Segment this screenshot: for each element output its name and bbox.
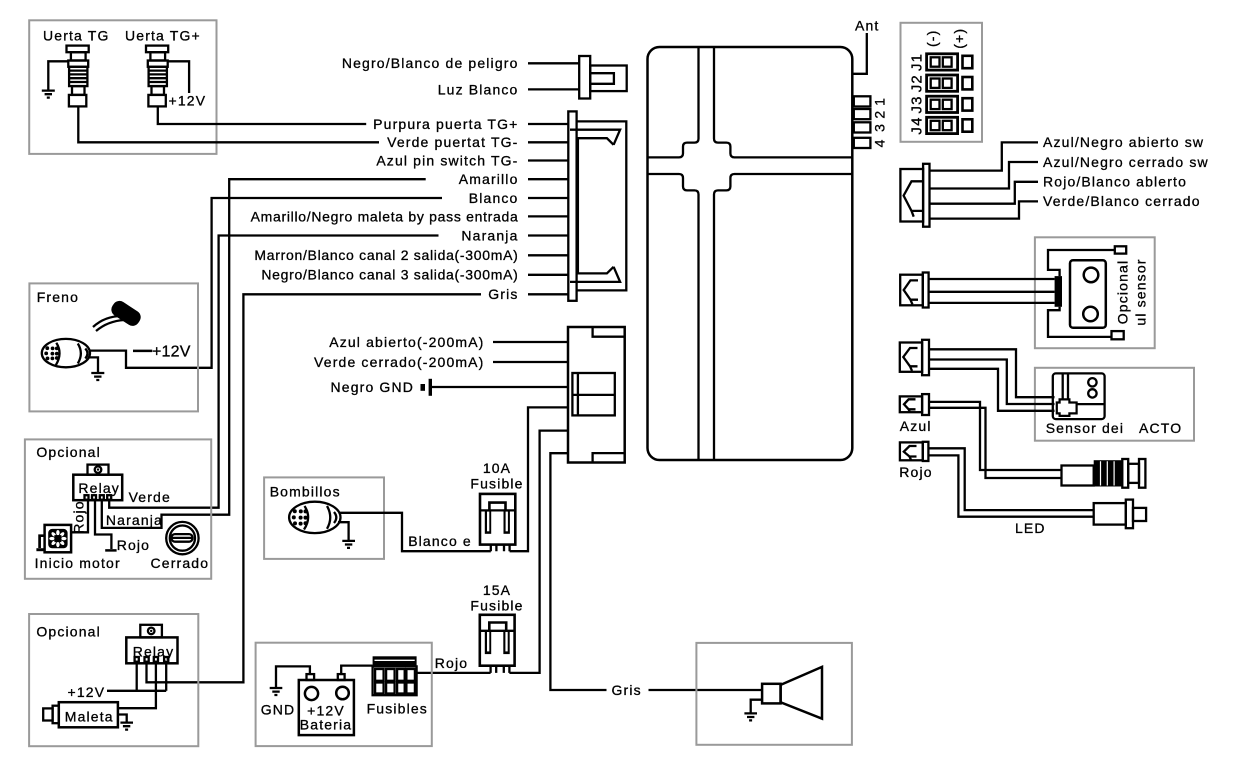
pedal cables	[93, 316, 124, 331]
box Uerta TG switches	[29, 20, 216, 154]
wire Azul pair b	[929, 408, 1062, 478]
ground	[120, 723, 133, 730]
wire R1 pin2 Rojo end	[95, 500, 111, 549]
svg-text:2: 2	[872, 110, 888, 119]
box jumper block J1-J4	[901, 23, 983, 142]
connector CN3 key	[572, 373, 614, 415]
svg-text:Maleta: Maleta	[65, 708, 114, 724]
fusebox cells	[375, 669, 415, 694]
wire lamp L2 to 10A fuse	[339, 513, 491, 551]
wire R2 pin4 to +12V	[165, 662, 167, 691]
pin 4	[854, 138, 871, 148]
valet switch neck	[1128, 464, 1139, 483]
svg-text:GND: GND	[261, 702, 296, 718]
svg-text:Rojo: Rojo	[435, 655, 468, 671]
wire battery ground	[276, 666, 310, 687]
relay R1 pins	[85, 495, 112, 500]
wire Azul/Negro cerrado sw	[930, 162, 1039, 189]
svg-text:LED: LED	[1015, 520, 1046, 536]
svg-text:Rojo: Rojo	[117, 537, 150, 553]
ground	[42, 91, 55, 98]
wire S2 to Purpura row	[158, 106, 366, 124]
battery hole pos	[336, 687, 349, 700]
svg-text:Sensor dei: Sensor dei	[1046, 420, 1124, 436]
relay R1 tab hole	[95, 466, 102, 473]
svg-text:Freno: Freno	[37, 289, 79, 305]
wire Azul/Negro abierto sw	[930, 142, 1039, 170]
relay R2 tab hole	[148, 628, 155, 635]
svg-text:Verde: Verde	[129, 489, 171, 505]
label dash	[133, 350, 152, 353]
module hole a	[1088, 378, 1096, 386]
svg-text:Naranja: Naranja	[106, 512, 163, 528]
relay R1 tab	[88, 465, 109, 475]
wire S1 to ground	[48, 61, 68, 89]
svg-text:Azul abierto(-200mA): Azul abierto(-200mA)	[329, 334, 484, 350]
svg-text:(+): (+)	[951, 28, 967, 49]
svg-text:Gris: Gris	[612, 682, 642, 698]
wire S1 to Verde row	[78, 106, 379, 142]
jumper J3	[927, 96, 973, 112]
connector CN1 (10-pin) tab	[568, 111, 576, 300]
connector CN6 (3-wire)	[900, 340, 929, 375]
siren driver	[762, 684, 781, 704]
ground	[270, 688, 283, 695]
unit band top-right	[714, 47, 852, 157]
wire CN5 a	[929, 278, 1055, 280]
pin 2	[854, 109, 871, 119]
svg-text:Negro/Blanco canal 3 salida(-3: Negro/Blanco canal 3 salida(-300mA)	[261, 267, 518, 283]
box Opcional ul sensor	[1035, 237, 1155, 348]
relay R2 body	[126, 637, 177, 663]
connector CN1 inner latch bottom	[570, 267, 620, 282]
wire starter plug stub	[40, 536, 45, 548]
wire CN5 b	[929, 291, 1055, 293]
sensor body	[1070, 260, 1106, 328]
wire CN6 a	[929, 349, 1055, 397]
svg-text:Fusibles: Fusibles	[367, 701, 428, 717]
svg-text:J1: J1	[909, 53, 926, 71]
svg-text:10A: 10A	[483, 460, 511, 476]
terminal top	[1115, 246, 1126, 253]
box Opcional relay 2	[29, 614, 198, 746]
wire CN6 b	[929, 360, 1055, 405]
svg-text:Naranja: Naranja	[461, 227, 518, 243]
connector CN4 (4-wire)	[900, 164, 929, 227]
fusebox body	[373, 666, 417, 695]
module slots	[1063, 373, 1068, 399]
lamp L2	[289, 502, 340, 533]
connector CN1 body	[577, 121, 627, 290]
valet switch end	[1139, 459, 1145, 488]
svg-text:Blanco: Blanco	[469, 190, 519, 206]
Maleta box	[59, 702, 118, 727]
wire Maleta ground	[118, 715, 127, 723]
ground	[91, 373, 104, 380]
wire CN6 c	[929, 369, 1055, 411]
box siren	[696, 643, 852, 745]
terminal Rojo	[105, 549, 116, 552]
svg-text:Blanco e: Blanco e	[408, 533, 472, 549]
svg-text:Azul: Azul	[900, 418, 932, 434]
module plus key	[1057, 399, 1077, 416]
valet switch ferrule	[1062, 466, 1094, 486]
svg-text:1: 1	[872, 97, 888, 106]
svg-text:ul sensor: ul sensor	[1133, 258, 1149, 325]
terminal Negro GND	[421, 384, 426, 391]
wire S2 to +12V	[168, 61, 189, 93]
wire Verde/Blanco cerrado	[930, 201, 1039, 218]
wire Gris to relay R2 pin2	[147, 294, 482, 682]
box Bombillos	[264, 477, 384, 559]
svg-text:Relay: Relay	[78, 480, 120, 496]
battery hole neg	[305, 687, 318, 700]
svg-text:Amarillo: Amarillo	[459, 171, 519, 187]
wire CN5 c	[929, 302, 1055, 304]
svg-text:J4: J4	[909, 116, 926, 134]
svg-text:+12V: +12V	[152, 343, 191, 360]
svg-text:Uerta TG: Uerta TG	[43, 28, 110, 44]
svg-text:Verde puertat TG-: Verde puertat TG-	[387, 134, 518, 150]
svg-text:Uerta TG+: Uerta TG+	[125, 28, 201, 44]
connector CN3 notch top	[593, 327, 625, 337]
battery terminal pos	[338, 674, 345, 680]
svg-text:(-): (-)	[924, 30, 940, 47]
svg-text:+12V: +12V	[68, 684, 106, 700]
svg-text:J2: J2	[909, 74, 926, 92]
pin 1	[854, 96, 871, 106]
svg-text:Rojo/Blanco ablerto: Rojo/Blanco ablerto	[1043, 174, 1187, 190]
LED tip	[1133, 508, 1146, 521]
relay R2 tab	[140, 625, 162, 638]
wire stub Luz Blanco	[528, 88, 579, 90]
valet switch body	[1094, 460, 1123, 486]
LED ring	[1126, 500, 1133, 529]
module line	[1077, 403, 1105, 405]
unit band top-left	[648, 47, 699, 157]
sensor hole top	[1084, 268, 1099, 283]
svg-text:Opcional: Opcional	[36, 444, 100, 460]
wire Naranja to relay R1 pin4	[109, 236, 438, 508]
fusebox top bar	[373, 656, 417, 666]
valet switch ring	[1122, 459, 1128, 488]
connector CN1 inner frame	[578, 138, 614, 273]
battery terminal neg	[307, 674, 315, 680]
svg-text:Purpura puerta TG+: Purpura puerta TG+	[373, 116, 518, 132]
pin switch S1 (Uerta TG)	[67, 46, 89, 107]
svg-text:Marron/Blanco canal 2 salida(-: Marron/Blanco canal 2 salida(-300mA)	[254, 247, 518, 263]
connector CN8 Rojo	[900, 442, 928, 461]
jumper J2	[927, 75, 973, 91]
siren horn	[781, 667, 822, 719]
wire stub Negro GND	[432, 386, 568, 388]
svg-text:ACTO: ACTO	[1139, 420, 1182, 436]
box Freno	[29, 283, 198, 411]
svg-text:Negro GND: Negro GND	[331, 379, 414, 395]
module body	[1053, 373, 1105, 419]
svg-text:J3: J3	[909, 95, 926, 113]
main unit U1	[648, 47, 853, 460]
sensor hole bottom	[1083, 307, 1098, 322]
starter plug Inicio motor	[45, 525, 72, 552]
wire Rojo pair b	[928, 455, 1093, 516]
svg-text:Azul/Negro cerrado sw: Azul/Negro cerrado sw	[1043, 154, 1209, 170]
connector CN2 (2-pin)	[579, 56, 627, 99]
wire stub Azul abierto	[493, 341, 568, 343]
wire sensor loop bottom	[1048, 307, 1112, 337]
wire CN3 to 10A fuse	[510, 407, 568, 551]
wire Rojo/Blanco ablerto	[930, 182, 1039, 204]
svg-text:Ant: Ant	[855, 18, 879, 34]
svg-text:Inicio motor: Inicio motor	[35, 555, 121, 571]
svg-text:15A: 15A	[483, 582, 511, 598]
svg-text:Luz Blanco: Luz Blanco	[438, 81, 519, 97]
terminal bottom	[1112, 331, 1124, 339]
svg-text:Rojo: Rojo	[899, 464, 932, 480]
pin 3	[854, 122, 871, 132]
key switch Cerrado	[166, 522, 198, 554]
jumper J4	[927, 117, 973, 133]
svg-text:4: 4	[872, 138, 888, 147]
wire Blanco to Freno lamp	[90, 198, 443, 368]
wire R1 pin1 to starter plug	[71, 500, 88, 533]
wire Amarillo to relay R1 pin3	[102, 179, 426, 528]
connector CN1 inner latch top	[570, 130, 620, 145]
wire Azul pair a	[929, 402, 1062, 470]
wire battery to 15A fuse	[415, 672, 491, 674]
wire CN3 Gris to siren	[550, 453, 762, 690]
wire battery to fusebox	[341, 666, 372, 675]
svg-text:+12V: +12V	[169, 93, 207, 109]
pin switch S2 (Uerta TG+)	[146, 46, 168, 107]
svg-text:Opcional: Opcional	[1115, 260, 1131, 324]
wire R2 pin3 to Maleta	[118, 662, 156, 709]
svg-text:3: 3	[872, 123, 888, 132]
brake pedal	[109, 298, 144, 328]
wire antenna	[852, 33, 867, 74]
box Sensor dei ACTO	[1035, 368, 1194, 441]
svg-text:Bateria: Bateria	[300, 717, 352, 733]
Maleta plug	[43, 708, 52, 720]
svg-text:Gris: Gris	[488, 286, 518, 302]
wire sensor loop top	[1048, 250, 1115, 276]
wire lamp ground	[89, 357, 98, 372]
box Opcional relay 1	[25, 439, 211, 578]
ground	[744, 713, 757, 720]
wire stubs 10-pin rows	[528, 124, 568, 294]
fuse 10A	[480, 494, 515, 545]
svg-text:Fusible: Fusible	[470, 476, 523, 492]
wire siren ground	[751, 700, 762, 713]
lamp L2 dots	[292, 509, 308, 525]
pad sensor	[1055, 276, 1062, 307]
connector CN3 body	[568, 327, 625, 463]
svg-text:Verde/Blanco cerrado: Verde/Blanco cerrado	[1043, 193, 1201, 209]
ground	[342, 541, 355, 548]
svg-text:Opcional: Opcional	[36, 623, 100, 639]
svg-text:Cerrado: Cerrado	[151, 555, 210, 571]
svg-text:Azul pin switch TG-: Azul pin switch TG-	[376, 152, 518, 168]
battery body	[299, 680, 354, 735]
svg-text:Azul/Negro abierto sw: Azul/Negro abierto sw	[1043, 134, 1204, 150]
module hole b	[1088, 389, 1096, 397]
wire stub Verde cerrado	[493, 361, 568, 363]
unit band bottom-left	[648, 174, 699, 460]
svg-text:Bombillos: Bombillos	[270, 483, 341, 499]
wire R2 pin1 to +12V	[136, 662, 138, 691]
wire CN3 to 15A fuse	[509, 431, 568, 673]
wire stub peligro	[528, 62, 579, 64]
svg-text:Fusible: Fusible	[470, 598, 523, 614]
svg-text:Rojo: Rojo	[70, 500, 86, 533]
connector CN7 Azul	[900, 394, 929, 415]
relay R2 pins	[135, 657, 169, 662]
LED body	[1094, 503, 1126, 524]
lamp L1	[42, 339, 90, 367]
connector CN3 notch bottom	[593, 453, 625, 462]
fuse 15A	[480, 615, 515, 666]
unit band bottom-right	[714, 174, 852, 460]
wire Rojo pair a	[928, 448, 1093, 510]
box battery	[256, 643, 432, 746]
lamp L1 dots	[44, 346, 58, 360]
jumper J1	[927, 54, 973, 70]
svg-text:Negro/Blanco de peligro: Negro/Blanco de peligro	[342, 55, 519, 71]
connector CN5 (3-wire)	[900, 273, 928, 308]
wire +12V line	[107, 690, 166, 692]
svg-text:Verde cerrado(-200mA): Verde cerrado(-200mA)	[314, 354, 484, 370]
relay R1 body	[73, 475, 122, 501]
svg-text:Amarillo/Negro maleta by pass: Amarillo/Negro maleta by pass entrada	[251, 208, 519, 224]
wire lamp L2 ground	[338, 522, 349, 540]
